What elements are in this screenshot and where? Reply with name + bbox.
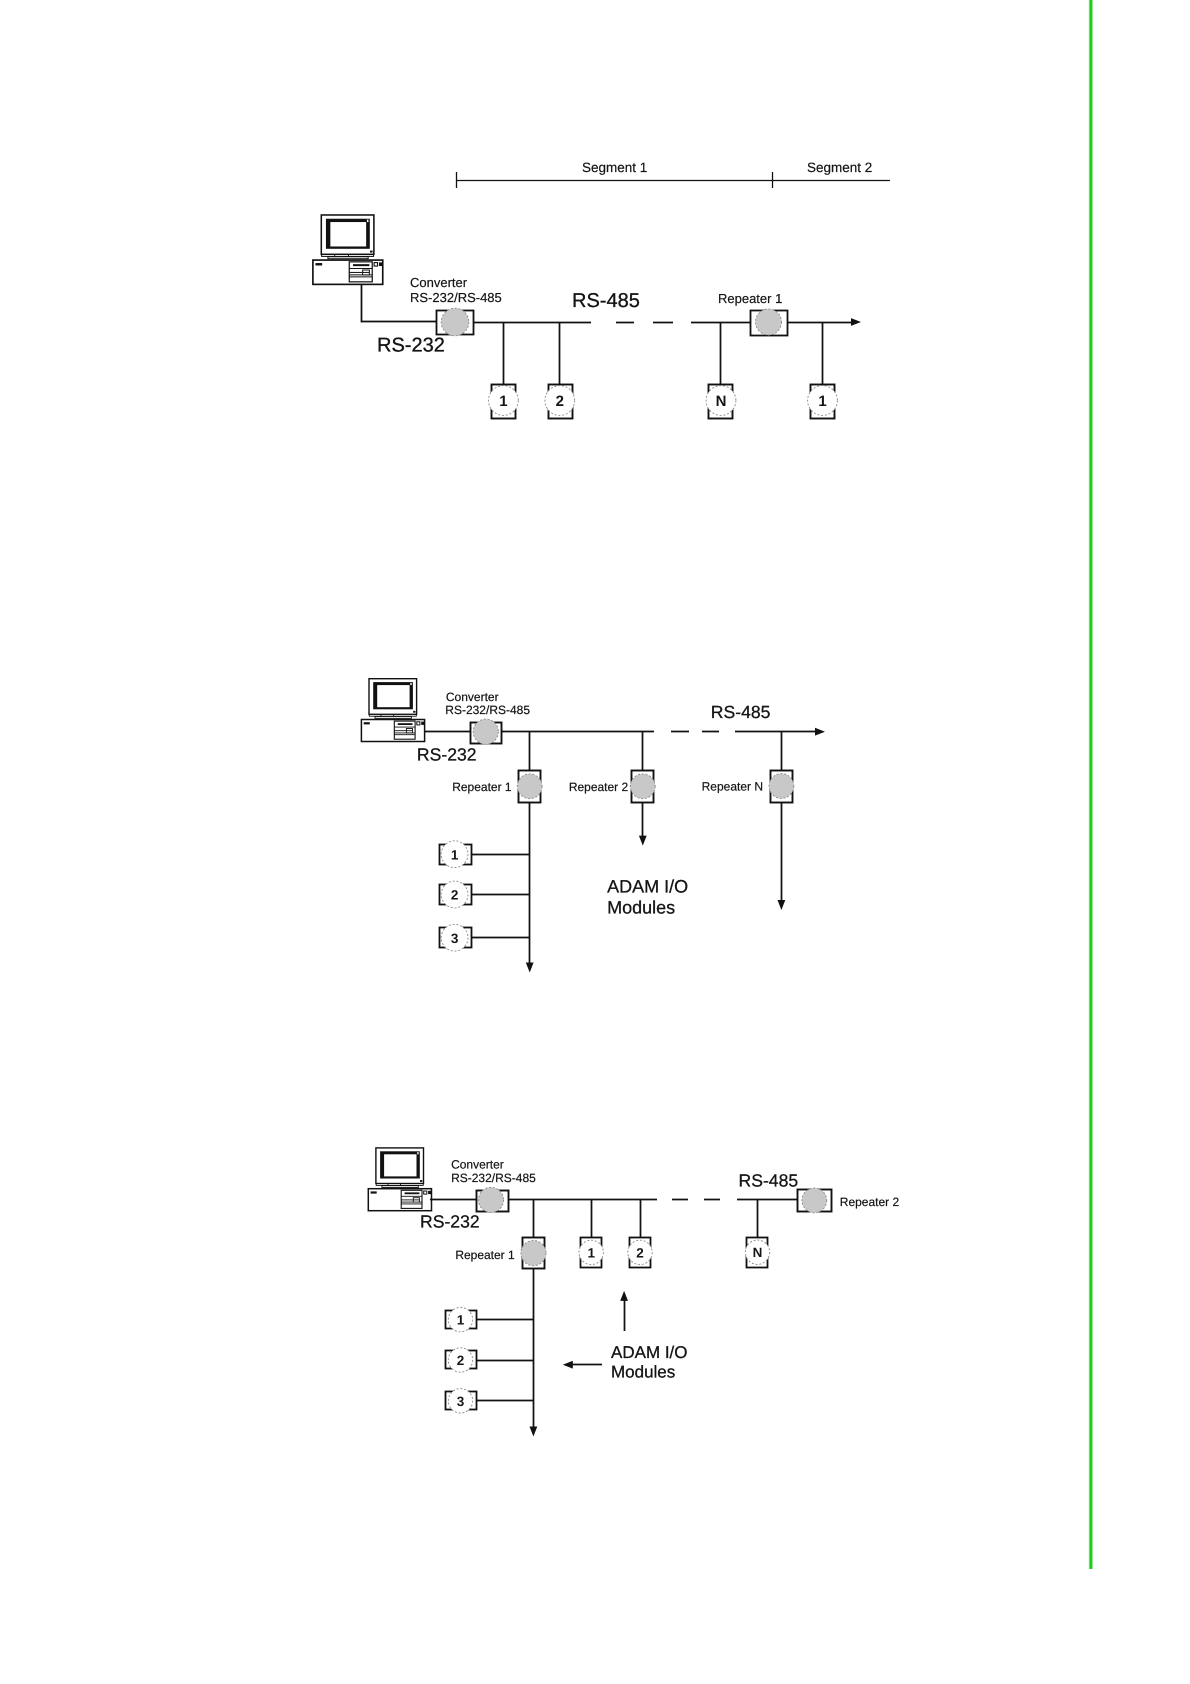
svg-text:ADAM I/O: ADAM I/O <box>611 1343 688 1362</box>
svg-text:Repeater 1: Repeater 1 <box>452 780 512 794</box>
svg-text:RS-232: RS-232 <box>377 335 445 357</box>
svg-text:2: 2 <box>457 1353 465 1368</box>
svg-text:Repeater 2: Repeater 2 <box>840 1195 900 1209</box>
svg-text:RS-232/RS-485: RS-232/RS-485 <box>410 290 502 305</box>
svg-text:N: N <box>716 393 727 410</box>
svg-text:RS-232: RS-232 <box>420 1212 480 1232</box>
svg-text:1: 1 <box>499 393 507 410</box>
svg-text:3: 3 <box>457 1394 465 1409</box>
svg-text:2: 2 <box>636 1245 644 1260</box>
svg-text:RS-232/RS-485: RS-232/RS-485 <box>451 1171 536 1185</box>
svg-text:RS-232: RS-232 <box>417 745 477 765</box>
svg-text:RS-485: RS-485 <box>572 290 640 312</box>
svg-text:1: 1 <box>451 847 459 862</box>
svg-text:Converter: Converter <box>451 1158 504 1172</box>
svg-text:RS-232/RS-485: RS-232/RS-485 <box>445 703 530 717</box>
svg-text:Repeater 1: Repeater 1 <box>455 1248 515 1262</box>
svg-text:Segment 1: Segment 1 <box>582 160 647 175</box>
svg-text:RS-485: RS-485 <box>711 702 771 722</box>
svg-text:Converter: Converter <box>446 690 499 704</box>
svg-text:Converter: Converter <box>410 275 468 290</box>
svg-text:Modules: Modules <box>607 898 675 918</box>
svg-text:2: 2 <box>451 888 459 903</box>
svg-text:1: 1 <box>818 393 826 410</box>
svg-text:Repeater 1: Repeater 1 <box>718 291 782 306</box>
svg-text:1: 1 <box>587 1245 595 1260</box>
svg-text:ADAM I/O: ADAM I/O <box>607 876 688 896</box>
svg-text:RS-485: RS-485 <box>739 1170 799 1190</box>
svg-text:Repeater 2: Repeater 2 <box>569 780 629 794</box>
svg-text:2: 2 <box>556 393 564 410</box>
svg-text:1: 1 <box>457 1313 465 1328</box>
svg-text:3: 3 <box>451 931 459 946</box>
svg-text:Repeater N: Repeater N <box>702 780 763 794</box>
svg-text:N: N <box>753 1245 763 1260</box>
svg-text:Modules: Modules <box>611 1363 675 1382</box>
svg-text:Segment 2: Segment 2 <box>807 160 872 175</box>
